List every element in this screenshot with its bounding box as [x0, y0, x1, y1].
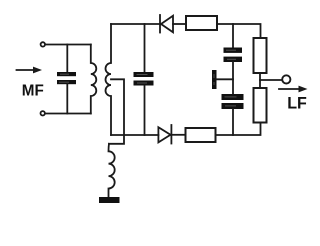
node: mid column tee	[232, 24, 234, 48]
input arrow (MF)	[17, 67, 43, 74]
capacitor C2 (secondary tank)	[134, 24, 154, 135]
diode D1	[160, 15, 186, 33]
output arrow (LF)	[279, 86, 308, 93]
capacitor C3 (upper mid)	[224, 48, 243, 95]
output terminal	[282, 75, 290, 83]
diode D2	[158, 125, 185, 144]
wire top rail	[111, 23, 160, 25]
wire top input	[45, 44, 91, 46]
capacitor C4 (lower mid)	[222, 94, 244, 135]
input terminal top	[41, 42, 45, 46]
capacitor C1 (input tank)	[57, 45, 76, 114]
resistor R3 (upper right, vertical)	[254, 38, 267, 73]
wire bottom rail	[111, 134, 158, 136]
wire to output terminal	[260, 79, 281, 81]
resistor R1 (top)	[186, 16, 217, 30]
resistor R4 (lower right, vertical)	[254, 88, 267, 123]
wire bottom rail right	[216, 123, 261, 136]
capacitor C5 (electrolytic, left of mid column)	[212, 70, 233, 89]
svg-text:MF: MF	[22, 82, 44, 99]
wire center tap	[109, 79, 124, 144]
wire top rail right	[217, 24, 261, 38]
wire between R3 and R4	[259, 73, 261, 88]
inductor L1 (primary coil)	[91, 45, 97, 114]
resistor R2 (bottom)	[186, 128, 216, 142]
input terminal bottom	[41, 111, 45, 115]
svg-text:LF: LF	[287, 94, 307, 113]
inductor L2 (secondary coil)	[106, 24, 112, 135]
inductor L3 (tertiary coil to ground)	[109, 144, 115, 197]
wire bottom input	[45, 113, 91, 115]
ground	[99, 197, 120, 203]
